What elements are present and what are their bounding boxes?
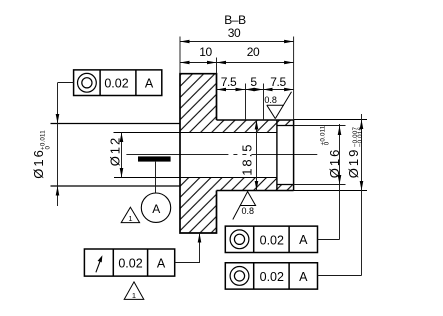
dimension 30: [180, 41, 294, 43]
extension line x263: [263, 84, 265, 121]
svg-text:20: 20: [247, 45, 260, 59]
svg-text:10: 10: [199, 45, 212, 59]
dimension 10: [180, 62, 217, 64]
svg-text:Ø12: Ø12: [108, 136, 123, 167]
svg-text:1: 1: [128, 214, 132, 223]
svg-text:7.5: 7.5: [221, 75, 237, 89]
svg-text:A: A: [299, 233, 308, 247]
extension line Ø16 right top: [294, 125, 346, 127]
svg-text:0.8: 0.8: [242, 206, 255, 216]
svg-text:A: A: [157, 257, 166, 271]
svg-text:Ø16: Ø16: [327, 148, 342, 179]
fcf concentricity top-left symbol: [78, 73, 97, 92]
svg-text:1: 1: [132, 291, 136, 300]
svg-text:0: 0: [324, 141, 331, 145]
svg-text:B–B: B–B: [224, 13, 246, 27]
extension line Ø16 right bottom: [294, 184, 346, 186]
bore line top: [114, 132, 277, 134]
fcf concentricity right 1 frame: [225, 226, 317, 252]
right bore bottom line: [277, 184, 294, 186]
dimension 7.5 left: [217, 89, 246, 91]
extension line x245: [245, 84, 247, 121]
svg-text:30: 30: [228, 26, 241, 40]
datum circle A: [141, 193, 170, 222]
dimension 5: [245, 89, 263, 91]
dimension 18.5 line: [256, 120, 258, 191]
dimension Ø16 right line: [339, 124, 341, 240]
left shaft outline top: [51, 123, 181, 125]
hub bottom wall hatch: [217, 178, 277, 191]
fcf bottom-left leader: [175, 233, 200, 263]
bore line bottom: [114, 177, 277, 179]
svg-text:0.8: 0.8: [264, 95, 277, 105]
svg-text:0: 0: [45, 146, 52, 150]
left shaft outline bottom: [51, 185, 181, 187]
svg-text:0.02: 0.02: [260, 233, 284, 247]
fcf circular runout bottom-left frame: [84, 249, 174, 276]
datum leader: [155, 162, 157, 193]
dimension 20: [217, 62, 294, 64]
svg-text:0.02: 0.02: [260, 270, 284, 284]
svg-text:5: 5: [250, 75, 257, 89]
flange hatch upper: [180, 74, 217, 133]
note triangle 1: [121, 207, 139, 222]
right end face: [293, 120, 295, 191]
flange hatch lower: [180, 178, 217, 234]
fcf concentricity right 2 frame: [225, 263, 317, 289]
dimension Ø19 line: [361, 114, 363, 276]
right bore top line: [277, 125, 294, 127]
fcf right 1 leader: [318, 239, 340, 241]
bore step face: [276, 120, 278, 191]
svg-text:Ø19: Ø19: [346, 148, 361, 179]
fcf top-left leader: [58, 82, 74, 84]
fcf right 2 leader: [318, 275, 362, 277]
hub outer top line: [217, 119, 294, 121]
fcf concentricity top-left frame: [74, 70, 162, 96]
surface finish 0.8 top: [267, 92, 292, 119]
svg-text:0.02: 0.02: [104, 76, 128, 90]
centerline: [126, 154, 317, 156]
dimension Ø12 line: [121, 133, 123, 178]
hub top wall hatch: [217, 120, 277, 133]
svg-text:A: A: [299, 270, 308, 284]
svg-text:A: A: [152, 202, 160, 216]
svg-text:−0.016: −0.016: [357, 127, 364, 148]
journal bottom wall hatch: [277, 185, 293, 191]
surface finish 0.8 bottom: [233, 192, 256, 220]
journal top wall hatch: [277, 120, 293, 126]
svg-text:7.5: 7.5: [270, 75, 286, 89]
svg-text:A: A: [145, 76, 154, 90]
note triangle 2: [124, 282, 144, 300]
dimension Ø16 left line: [57, 83, 59, 206]
svg-text:18.5: 18.5: [239, 142, 254, 175]
hub outer bottom line: [217, 190, 294, 192]
extension line x216.5: [216, 58, 218, 74]
dimension 7.5 right: [263, 89, 294, 91]
flange outline: [180, 74, 217, 233]
fcf runout arrow symbol: [96, 262, 100, 273]
svg-text:0.02: 0.02: [118, 257, 142, 271]
extension line x293.6: [293, 37, 295, 121]
extension line Ø19 bottom: [294, 190, 367, 192]
svg-text:Ø16: Ø16: [31, 148, 46, 179]
datum target thick bar: [138, 156, 171, 161]
extension line x180: [179, 37, 181, 74]
extension line Ø19 top: [294, 119, 367, 121]
